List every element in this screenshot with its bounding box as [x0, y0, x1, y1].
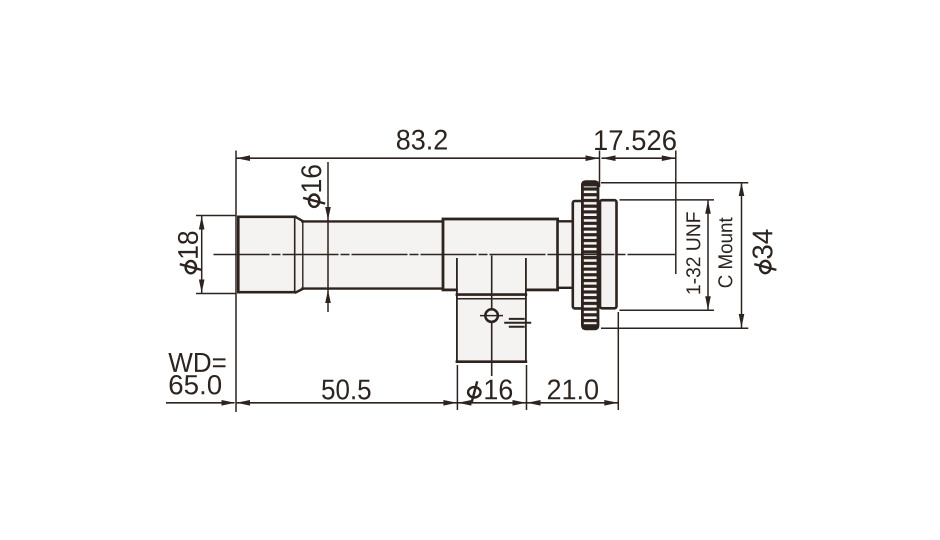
front barrel (phi18 section): [238, 217, 295, 292]
extension line front (x=236): [235, 151, 237, 413]
dimension 1-32 UNF: [707, 200, 709, 310]
dimension phi18 left: [196, 215, 236, 217]
phi16 front tube: [302, 221, 444, 290]
extension line bracket left (x=457.4): [456, 365, 458, 410]
dimension 83.2: [236, 157, 600, 159]
bracket neck cover (interrupts barrel bottom edge): [458, 286, 525, 296]
taper end edge: [302, 222, 304, 289]
main barrel: [443, 219, 558, 290]
label C Mount: [718, 217, 732, 287]
knurled focus ring: [582, 182, 598, 329]
dimension phi16 bottom: [457, 402, 526, 404]
bracket top bold line: [456, 293, 528, 296]
bracket center line: [491, 256, 493, 377]
extension line flange face (x=599.5): [599, 151, 601, 188]
mount flange ring: [573, 201, 583, 308]
C-mount thread bottom line: [620, 309, 715, 311]
bracket bottom edge: [456, 360, 528, 363]
bracket left edge: [456, 258, 458, 363]
center line: [214, 254, 676, 256]
dimension 17.526: [602, 157, 676, 159]
extension line bracket right (x=526.5): [526, 365, 528, 410]
dimension 21.0: [527, 402, 619, 404]
extension line rear (x=618.3): [617, 312, 619, 410]
dimension WD=65.0: [166, 402, 235, 404]
taper cone: [296, 216, 304, 293]
neck section: [559, 221, 572, 289]
screw hole crosshair: [480, 315, 503, 317]
bracket body: [457, 294, 527, 362]
extension line image plane (x=675.8): [675, 151, 677, 275]
C-mount thread top line: [620, 199, 715, 201]
screw hole: [485, 309, 498, 322]
dimension phi34 right: [601, 182, 748, 184]
dimension phi16 top: [327, 162, 329, 312]
bracket top thin line: [456, 298, 527, 300]
dimension 50.5: [236, 402, 457, 404]
bracket right edge: [525, 258, 527, 363]
thread mark lines: [509, 318, 525, 320]
rear barrel: [600, 200, 617, 308]
